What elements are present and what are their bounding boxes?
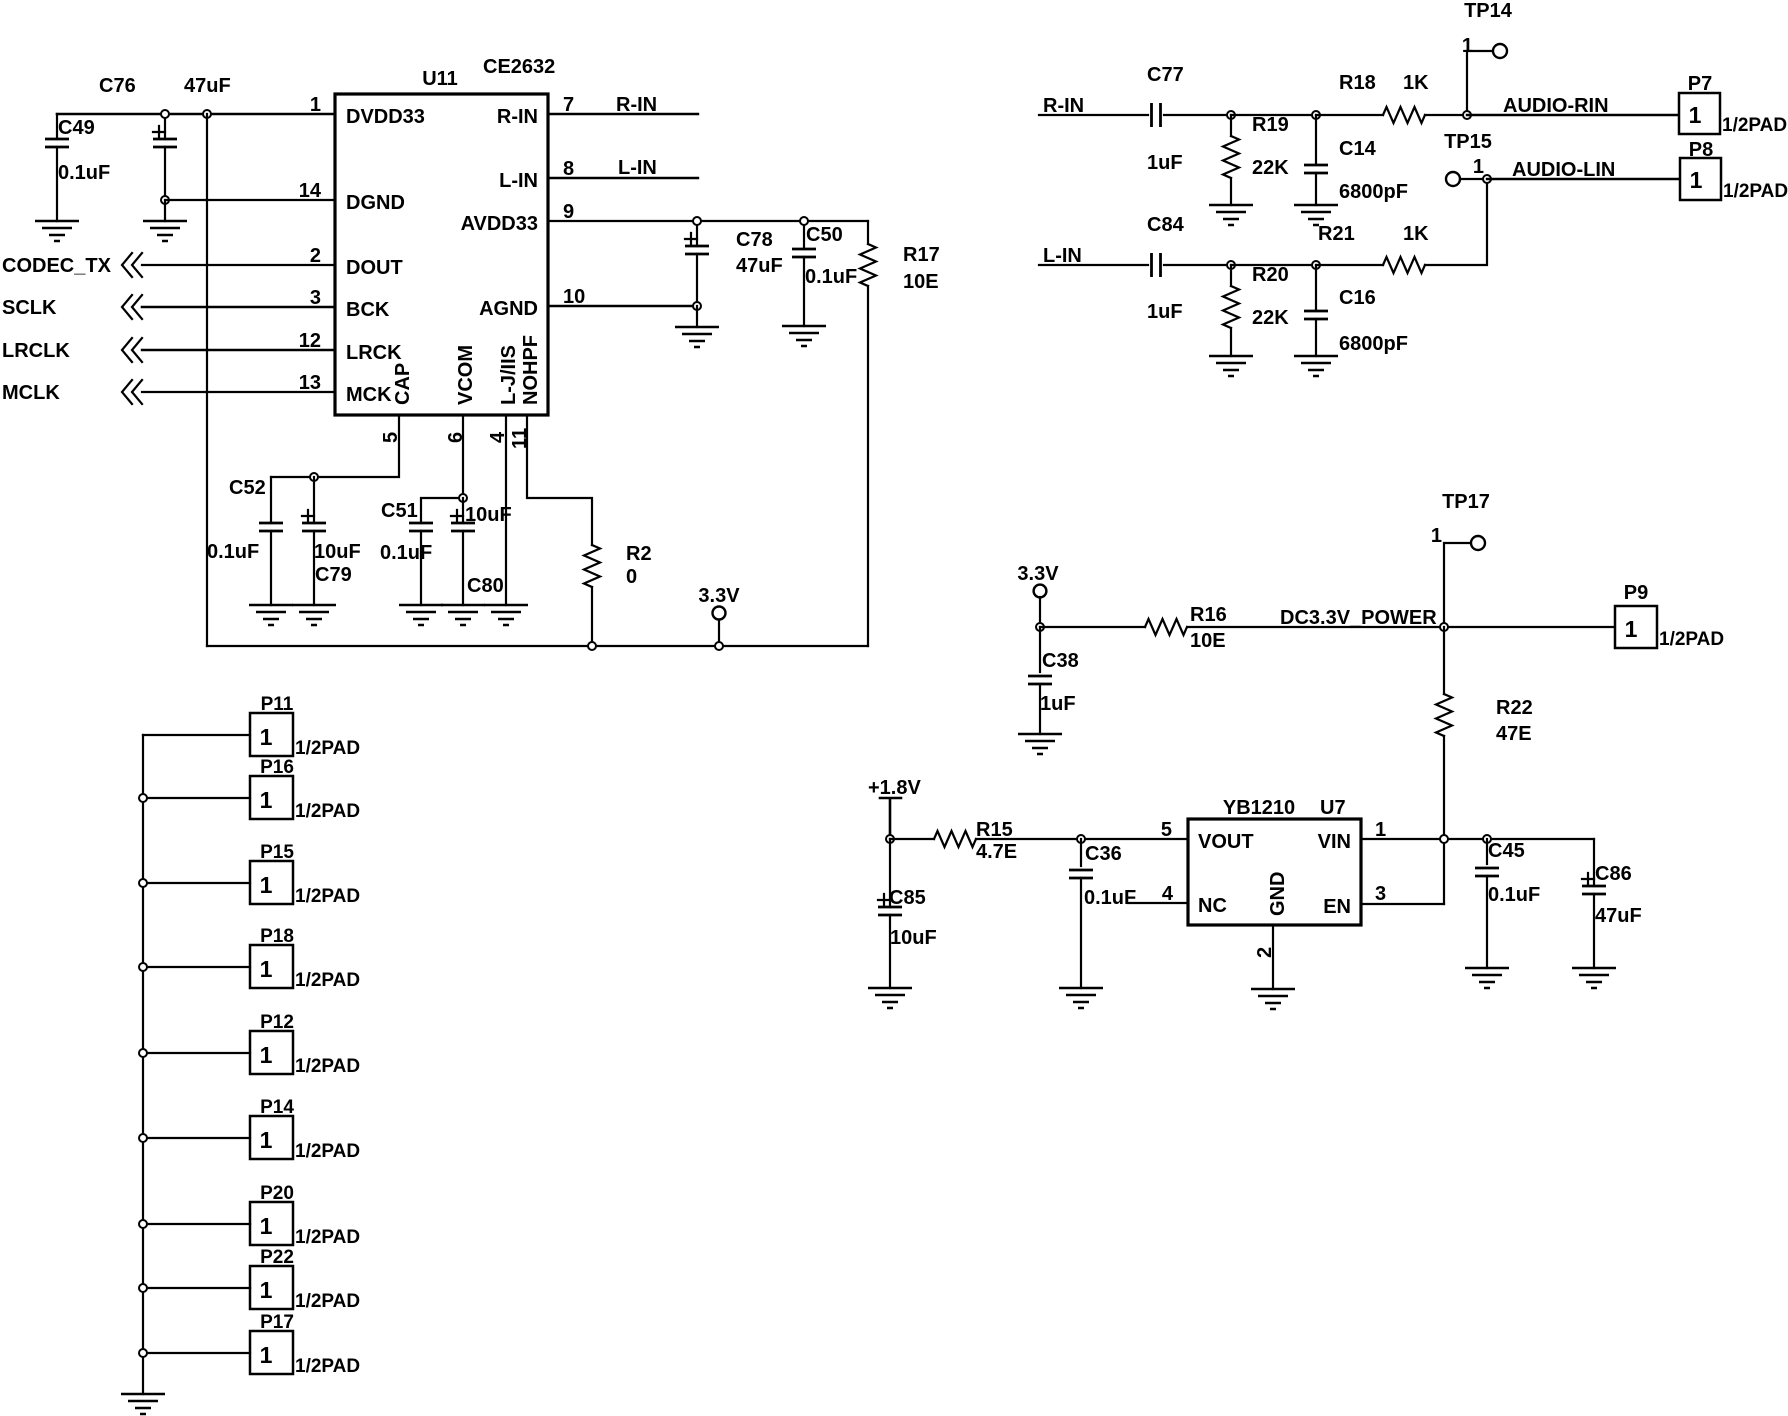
svg-text:TP15: TP15 [1444,131,1492,153]
junction (DVDD33 bus) [203,110,211,118]
wire R21 up to AUDIO-LIN [1425,179,1487,265]
svg-text:7: 7 [563,94,574,116]
svg-text:C51: C51 [381,500,418,522]
svg-text:CAP: CAP [392,363,414,405]
svg-text:1: 1 [1625,616,1638,642]
resistor R18 1K [1383,107,1425,123]
svg-text:CE2632: CE2632 [483,56,555,78]
junction (P14) [139,1134,147,1142]
junction (P17) [139,1349,147,1357]
svg-text:3.3V: 3.3V [698,585,740,607]
svg-text:10E: 10E [903,271,939,293]
svg-text:R22: R22 [1496,697,1533,719]
svg-text:1/2PAD: 1/2PAD [295,1141,360,1162]
ground (C36) [1059,988,1103,1008]
wire AGND pin10 [548,305,697,307]
test point (AUDIO-LIN) [1446,172,1460,186]
svg-text:4: 4 [1162,883,1174,905]
junction (AUDIO-LIN) [1483,175,1491,183]
svg-text:1/2PAD: 1/2PAD [295,1227,360,1248]
junction TP15 [1463,111,1471,119]
svg-text:MCLK: MCLK [2,382,60,404]
svg-text:LRCK: LRCK [346,342,402,364]
svg-text:1: 1 [1473,156,1484,178]
wire pad ground bus [142,735,144,1394]
svg-text:DC3.3V_POWER: DC3.3V_POWER [1280,607,1437,629]
junction (C45 top) [1483,835,1491,843]
svg-text:VOUT: VOUT [1198,831,1254,853]
svg-text:22K: 22K [1252,157,1289,179]
svg-text:DVDD33: DVDD33 [346,106,425,128]
svg-text:10uF: 10uF [890,927,937,949]
svg-text:R16: R16 [1190,604,1227,626]
svg-text:C86: C86 [1595,863,1632,885]
svg-text:47uF: 47uF [736,255,783,277]
svg-text:10uF: 10uF [465,504,512,526]
svg-text:C76: C76 [99,75,136,97]
svg-text:0.1uF: 0.1uF [380,542,432,564]
svg-text:0.1uF: 0.1uF [1084,887,1136,909]
svg-text:1/2PAD: 1/2PAD [295,886,360,907]
svg-text:1: 1 [260,872,273,898]
svg-text:P7: P7 [1688,73,1712,95]
svg-text:0.1uF: 0.1uF [1488,884,1540,906]
ground (C52 C79) [249,605,293,625]
resistor R21 1K [1383,257,1425,273]
svg-text:4.7E: 4.7E [976,841,1017,863]
wire SCLK to pin3 [142,306,335,309]
ground (C51 C80 pin4) [399,605,443,625]
junction (R2 bottom) [588,642,596,650]
svg-text:1/2PAD: 1/2PAD [295,1056,360,1077]
junction (C14 top) [1312,111,1320,119]
svg-text:MCK: MCK [346,384,392,406]
svg-text:R-IN: R-IN [1043,95,1084,117]
svg-text:C14: C14 [1339,138,1377,160]
junction (TP17/R22) [1440,623,1448,631]
svg-text:1/2PAD: 1/2PAD [295,970,360,991]
junction (C79 top) [310,473,318,481]
svg-text:10E: 10E [1190,630,1226,652]
wire pin4 stub to ground [505,415,507,605]
wire C78 to ground [696,306,698,327]
svg-text:1: 1 [260,787,273,813]
svg-text:1K: 1K [1403,223,1429,245]
junction (R19 top) [1227,111,1235,119]
capacitor C85 10uF [889,839,891,907]
svg-text:R20: R20 [1252,264,1289,286]
svg-text:R18: R18 [1339,72,1376,94]
capacitor C80 10uF [462,498,464,523]
svg-text:1/2PAD: 1/2PAD [1723,181,1788,202]
junction (P22) [139,1284,147,1292]
svg-text:U11: U11 [422,68,458,90]
svg-text:3.3V: 3.3V [1017,563,1059,585]
resistor R20 22K [1230,265,1232,286]
wire DVDD33 top rail [57,113,335,116]
svg-text:13: 13 [299,372,321,394]
ground (U7 GND) [1251,989,1295,1009]
ground (C38) [1018,734,1062,754]
svg-text:+1.8V: +1.8V [868,777,921,799]
junction (P18) [139,963,147,971]
svg-text:0.1uF: 0.1uF [805,266,857,288]
junction (3.3V rail) [715,642,723,650]
capacitor C50 0.1uF [803,221,805,249]
capacitor C79 10uF [313,477,315,523]
junction (P20) [139,1220,147,1228]
svg-text:C52: C52 [229,477,266,499]
svg-text:GND: GND [1267,872,1289,916]
svg-text:AVDD33: AVDD33 [461,213,538,235]
svg-text:47uF: 47uF [1595,905,1642,927]
svg-text:1: 1 [260,1342,273,1368]
junction (C16 top) [1312,261,1320,269]
svg-text:1: 1 [260,956,273,982]
svg-text:AUDIO-RIN: AUDIO-RIN [1503,95,1609,117]
svg-text:3: 3 [310,287,321,309]
net R-IN (pin7 stub) [548,113,698,115]
svg-text:1uF: 1uF [1147,152,1183,174]
svg-text:C78: C78 [736,229,773,251]
ground (C86) [1572,968,1616,988]
capacitor C86 47uF [1593,839,1595,886]
capacitor C49 [56,114,58,139]
svg-text:1: 1 [260,724,273,750]
ground (C45) [1465,968,1509,988]
wire 3.3V to R16 [1040,626,1145,628]
capacitor C78 47uF [696,221,698,246]
svg-text:1: 1 [260,1277,273,1303]
svg-text:14: 14 [299,180,322,202]
wire R20 to C16 [1231,264,1316,266]
junction (C36 top) [1077,835,1085,843]
wire pin6 VCOM stub [462,415,464,498]
wire C84 to R20 [1164,264,1231,266]
svg-text:1: 1 [310,94,321,116]
IC U7 YB1210 body [1188,819,1361,925]
ground (C16) [1294,356,1338,376]
junction (C76 bottom / DGND) [161,196,169,204]
wire C16 to R21 [1316,264,1383,266]
svg-text:L-IN: L-IN [1043,245,1082,267]
svg-text:BCK: BCK [346,299,390,321]
wire VIN pin1 [1361,838,1594,840]
wire pin11 NOHPF stub [527,415,592,545]
svg-text:1/2PAD: 1/2PAD [295,1291,360,1312]
svg-text:0.1uF: 0.1uF [58,162,110,184]
junction (C78/AGND) [693,302,701,310]
svg-text:U7: U7 [1320,797,1346,819]
svg-text:DGND: DGND [346,192,405,214]
svg-text:R-IN: R-IN [616,94,657,116]
svg-text:22K: 22K [1252,307,1289,329]
svg-text:L-IN: L-IN [618,157,657,179]
ground (C78) [675,327,719,347]
svg-text:1uF: 1uF [1040,693,1076,715]
svg-text:47uF: 47uF [184,75,231,97]
ground (C49) [35,221,79,241]
svg-text:SCLK: SCLK [2,297,57,319]
wire DVDD33 vertical bus [206,114,208,646]
svg-text:R15: R15 [976,819,1013,841]
svg-text:6800pF: 6800pF [1339,333,1408,355]
svg-text:C77: C77 [1147,64,1184,86]
wire C14 to R18 [1316,114,1383,116]
resistor R15 4.7E [890,838,934,840]
wire C77 to R19 [1164,114,1231,116]
junction (C50 top) [800,217,808,225]
capacitor C77 1uF [1152,103,1161,127]
svg-text:1K: 1K [1403,72,1429,94]
junction (P16) [139,794,147,802]
svg-text:1/2PAD: 1/2PAD [295,1356,360,1377]
svg-text:10: 10 [563,286,585,308]
svg-text:8: 8 [563,158,574,180]
wire CODEC_TX to pin2 [142,264,335,266]
ground (C85) [868,988,912,1008]
ground (C76) [143,221,187,241]
svg-text:1: 1 [260,1213,273,1239]
junction (P15) [139,879,147,887]
wire LRCLK to pin12 [142,349,335,351]
junction (VIN/R22) [1440,835,1448,843]
svg-text:47E: 47E [1496,723,1532,745]
svg-text:R17: R17 [903,244,940,266]
svg-text:1: 1 [1689,102,1702,128]
svg-text:C80: C80 [467,575,504,597]
capacitor C16 6800pF [1315,265,1317,311]
ground (pad bus) [121,1394,165,1414]
svg-text:AGND: AGND [479,298,538,320]
svg-text:1: 1 [1690,167,1703,193]
svg-text:R21: R21 [1318,223,1355,245]
junction (3.3V/C38) [1036,623,1044,631]
wire R19 to C14 [1231,114,1316,116]
capacitor C84 1uF [1152,253,1161,277]
svg-text:CODEC_TX: CODEC_TX [2,255,112,277]
wire MCLK to pin13 [142,391,335,393]
ground (C14) [1294,205,1338,225]
wire DGND pin14 [165,200,335,221]
resistor R2 0 [584,545,600,587]
wire pin5 CAP stub [271,415,399,477]
junction (C78 top) [693,217,701,225]
IC U11 CE2632 body [335,94,548,415]
svg-text:12: 12 [299,330,321,352]
svg-text:1: 1 [1431,525,1442,547]
svg-text:2: 2 [310,245,321,267]
svg-text:L-J/IIS: L-J/IIS [498,345,520,405]
wire bottom 3.3V rail [207,645,868,647]
svg-text:VIN: VIN [1318,831,1351,853]
svg-text:1/2PAD: 1/2PAD [295,801,360,822]
junction (P12) [139,1049,147,1057]
resistor R16 10E [1145,619,1187,635]
junction (R20 top) [1227,261,1235,269]
capacitor C38 1uF [1039,627,1041,672]
capacitor C45 0.1uF [1486,839,1488,864]
svg-text:1: 1 [1375,819,1386,841]
ground (R19) [1209,205,1253,225]
resistor R22 47E [1443,627,1445,694]
junction (C76 top) [161,110,169,118]
svg-text:1/2PAD: 1/2PAD [295,738,360,759]
junction (VCOM/C51/C80) [459,494,467,502]
svg-text:C49: C49 [58,117,95,139]
svg-text:NOHPF: NOHPF [520,335,542,405]
svg-text:1uF: 1uF [1147,301,1183,323]
svg-text:C85: C85 [889,887,926,909]
svg-text:C84: C84 [1147,214,1185,236]
svg-text:LRCLK: LRCLK [2,340,70,362]
svg-text:1: 1 [260,1042,273,1068]
svg-text:NC: NC [1198,895,1227,917]
capacitor C36 0.1uF [1080,839,1082,866]
svg-text:10uF: 10uF [314,541,361,563]
svg-text:C36: C36 [1085,843,1122,865]
svg-text:R19: R19 [1252,114,1289,136]
svg-text:AUDIO-LIN: AUDIO-LIN [1512,159,1615,181]
svg-text:0.1uF: 0.1uF [207,541,259,563]
junction (+1.8V/C85) [886,835,894,843]
ground (C50) [782,326,826,346]
wire AVDD33 pin9 [548,220,868,222]
svg-text:C79: C79 [315,564,352,586]
ground (R20) [1209,356,1253,376]
svg-text:3: 3 [1375,883,1386,905]
capacitor C52 0.1uF [270,477,272,523]
svg-text:5: 5 [1161,819,1172,841]
svg-text:TP17: TP17 [1442,491,1490,513]
resistor R19 22K [1230,115,1232,136]
svg-text:YB1210: YB1210 [1223,797,1295,819]
svg-text:6800pF: 6800pF [1339,181,1408,203]
net L-IN (pin8 stub) [548,177,698,179]
svg-text:R-IN: R-IN [497,106,538,128]
svg-text:1/2PAD: 1/2PAD [1659,629,1724,650]
capacitor C14 6800pF [1315,115,1317,165]
svg-text:R2: R2 [626,543,652,565]
svg-text:9: 9 [563,201,574,223]
svg-text:1: 1 [260,1127,273,1153]
svg-text:L-IN: L-IN [499,170,538,192]
svg-text:P9: P9 [1624,582,1648,604]
svg-text:TP14: TP14 [1464,0,1513,22]
svg-text:EN: EN [1323,896,1351,918]
svg-text:C38: C38 [1042,650,1079,672]
svg-text:1/2PAD: 1/2PAD [1722,115,1787,136]
svg-text:VCOM: VCOM [455,345,477,405]
svg-text:C16: C16 [1339,287,1376,309]
svg-text:C50: C50 [806,224,843,246]
svg-text:C45: C45 [1488,840,1525,862]
capacitor C51 0.1uF [421,498,463,523]
wire R18 to TP15 [1425,114,1467,116]
svg-text:DOUT: DOUT [346,257,403,279]
resistor R17 10E [867,221,869,244]
svg-text:0: 0 [626,566,637,588]
